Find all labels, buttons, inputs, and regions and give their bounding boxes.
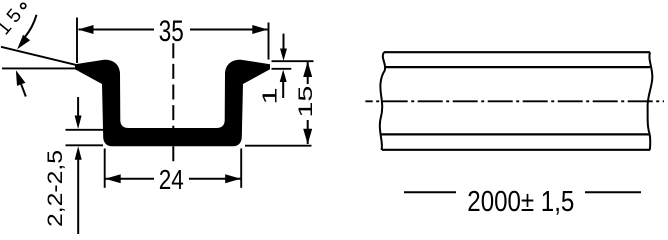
angle 15deg slanted line — [1, 47, 76, 65]
dim 1 upper arrowhead (down) — [280, 49, 287, 61]
angle 15deg leader line — [21, 84, 26, 96]
dim 35 extension line right — [268, 23, 270, 60]
dim 2,2-2,5 upper arrowhead (down) — [75, 116, 82, 130]
dim 15 arrow up — [303, 62, 312, 78]
svg-text:35: 35 — [159, 15, 184, 48]
side view centerline (dash-dot) — [365, 100, 664, 102]
dim 1 lower tick (flange underside) — [272, 68, 292, 70]
dim 35 arrow right — [252, 25, 267, 34]
dim 1 upper arrow line — [283, 34, 285, 50]
svg-text:24: 24 — [159, 164, 184, 195]
dim 24 line right segment — [189, 178, 241, 180]
dim 2,2-2,5 lower extension line — [66, 144, 104, 146]
rail cross-section profile — [75, 60, 270, 147]
svg-text:15: 15 — [295, 86, 317, 118]
dim 15 bottom extension line — [245, 145, 312, 147]
dim 35 line left segment — [79, 29, 155, 31]
dim 24 extension line right — [240, 149, 242, 188]
svg-text:1: 1 — [258, 87, 281, 104]
svg-text:2,2-2,5: 2,2-2,5 — [44, 150, 67, 227]
dim 2000 line left segment — [404, 191, 456, 193]
dim 1 upper extension line (flange top) — [272, 60, 314, 62]
angle 15deg arc arrowhead — [17, 35, 30, 50]
dim 15 line bottom segment — [307, 120, 309, 144]
angle 15deg horizontal reference line — [2, 67, 76, 69]
dim 35 arrow left — [78, 25, 94, 34]
dim 24 arrow right — [225, 174, 241, 183]
angle 15deg leader arrow — [16, 70, 26, 86]
angle 15deg arc — [25, 15, 37, 38]
side view left break line — [380, 52, 385, 150]
dim 24 line left segment — [106, 178, 155, 180]
dim 24 extension line left — [104, 149, 106, 188]
dim 2,2-2,5 lower arrow line — [77, 158, 79, 234]
dim 2,2-2,5 upper arrow line — [77, 97, 79, 117]
angle 15deg degree circle — [21, 3, 26, 8]
centerline of cross-section (vertical dashed) — [172, 43, 174, 162]
dim 1 lower arrow line — [282, 80, 284, 98]
dim 24 arrow left — [105, 174, 121, 183]
side view right break line — [648, 52, 653, 150]
svg-text:2000± 1,5: 2000± 1,5 — [467, 186, 574, 218]
dim 2,2-2,5 lower arrowhead (up) — [75, 146, 82, 160]
dim 15 line top segment — [307, 62, 309, 84]
dim 15 arrow down — [303, 129, 312, 145]
side view flange fold line — [386, 66, 651, 68]
side view bottom fold line — [381, 133, 650, 135]
dim 35 extension line left — [76, 18, 78, 64]
dim 35 line right segment — [190, 29, 268, 31]
dim 2,2-2,5 upper extension line — [66, 129, 104, 131]
dim 2000 line right segment — [585, 191, 641, 193]
side view bottom edge — [382, 149, 650, 151]
dim 1 lower arrowhead (up) — [280, 70, 287, 82]
side view top edge — [384, 51, 650, 53]
